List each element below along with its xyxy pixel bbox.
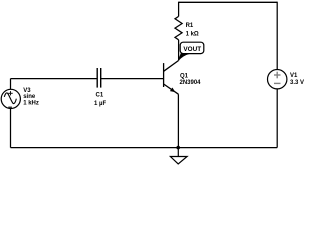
source V3 plus [8, 91, 12, 95]
svg-text:VOUT: VOUT [183, 46, 201, 53]
wire emitter lead [177, 94, 179, 147]
node VOUT flag box [180, 42, 204, 53]
capacitor C1 [97, 68, 101, 88]
svg-text:1 kHz: 1 kHz [23, 101, 39, 107]
wire V3 top lead [10, 79, 12, 90]
wire V1 top lead [276, 2, 278, 70]
svg-text:R1: R1 [186, 23, 194, 29]
svg-text:1 kΩ: 1 kΩ [186, 31, 199, 37]
wire R1 to collector [178, 40, 180, 61]
resistor R1 labels [186, 23, 199, 37]
source V3 minus [8, 106, 12, 108]
wire C1 to base [101, 78, 164, 80]
transistor Q1 [164, 61, 179, 95]
source V1 plus [274, 72, 281, 79]
source V1 [268, 70, 287, 89]
resistor R1 [175, 16, 182, 39]
wire R1 top lead [178, 2, 180, 17]
transistor Q1 emitter arrow [170, 88, 175, 93]
capacitor C1 value labels [94, 93, 106, 108]
svg-text:3.3 V: 3.3 V [290, 80, 304, 86]
svg-text:Q1: Q1 [180, 73, 189, 79]
svg-text:C1: C1 [96, 93, 104, 99]
source V3 sine symbol [4, 93, 16, 104]
svg-text:V3: V3 [23, 88, 31, 94]
source V1 labels [290, 73, 304, 86]
wire V3 to C1 [11, 78, 98, 80]
junction dot [176, 146, 180, 150]
wire V3 bottom lead [10, 109, 12, 148]
source V3 [1, 89, 20, 108]
source V1 minus [274, 82, 281, 84]
wire top rail [179, 1, 278, 3]
node VOUT flag tail [178, 53, 190, 61]
svg-text:sine: sine [23, 94, 36, 100]
wire bottom rail [11, 147, 278, 149]
wire V1 bottom lead [276, 89, 278, 148]
ground [170, 157, 187, 164]
svg-text:1 µF: 1 µF [94, 101, 106, 107]
transistor Q1 labels [180, 73, 202, 86]
svg-text:V1: V1 [290, 73, 298, 79]
source V3 labels [23, 88, 39, 107]
svg-text:2N3904: 2N3904 [180, 80, 202, 86]
ground stub [177, 148, 179, 157]
